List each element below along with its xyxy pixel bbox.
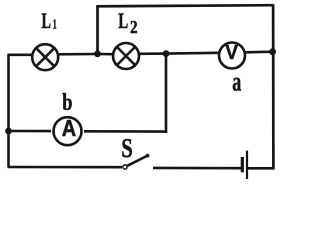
wire node J1 to lamp L2 bbox=[98, 53, 115, 56]
wire top loop: horizontal bbox=[96, 5, 273, 6]
wire bottom row: left corner to switch pivot bbox=[8, 166, 123, 169]
switch S arm bbox=[127, 156, 147, 166]
wire lamp L1 to node J1 bbox=[58, 53, 99, 56]
svg-text:V: V bbox=[225, 42, 238, 64]
wire ammeter branch: horizontal right part bbox=[84, 130, 167, 133]
battery BT1 positive plate (long thin) bbox=[246, 151, 248, 179]
wire top row: left end to lamp L1 bbox=[8, 53, 34, 56]
svg-text:1: 1 bbox=[53, 18, 57, 33]
node J1 junction dot bbox=[94, 51, 101, 58]
wire ammeter branch: J2 down bbox=[165, 54, 168, 133]
wire lamp L2 to node J2 bbox=[138, 52, 167, 55]
svg-text:S: S bbox=[121, 133, 133, 163]
label L2 bbox=[118, 8, 137, 37]
svg-text:a: a bbox=[232, 67, 241, 97]
lamp L2 bbox=[113, 43, 139, 69]
wire voltmeter to node J3 bbox=[245, 50, 274, 53]
svg-text:2: 2 bbox=[130, 17, 138, 37]
node J3 junction dot bbox=[269, 48, 276, 55]
lamp L1 bbox=[32, 44, 58, 70]
switch S arm tip blob bbox=[146, 154, 150, 158]
wire left vertical bbox=[7, 55, 10, 168]
svg-text:L: L bbox=[42, 8, 52, 33]
wire bottom row: switch to battery bbox=[153, 167, 241, 170]
label L1 bbox=[42, 8, 57, 33]
ammeter A1 bbox=[54, 115, 82, 145]
svg-text:L: L bbox=[118, 8, 128, 33]
wire bottom row: battery to right corner bbox=[248, 167, 275, 170]
svg-text:b: b bbox=[62, 90, 72, 116]
wire ammeter branch: horizontal left part bbox=[8, 130, 52, 133]
voltmeter U1 V bbox=[219, 42, 245, 69]
node J2 junction dot bbox=[163, 50, 170, 57]
switch S pivot bbox=[123, 165, 127, 169]
wire top loop: J1 up bbox=[96, 6, 99, 56]
wire node J2 to voltmeter V bbox=[166, 51, 219, 54]
svg-text:A: A bbox=[62, 115, 76, 141]
battery BT1 negative plate (short thick) bbox=[241, 157, 244, 172]
wire right vertical bbox=[272, 4, 275, 169]
node J4 junction dot on left vertical bbox=[5, 128, 12, 135]
